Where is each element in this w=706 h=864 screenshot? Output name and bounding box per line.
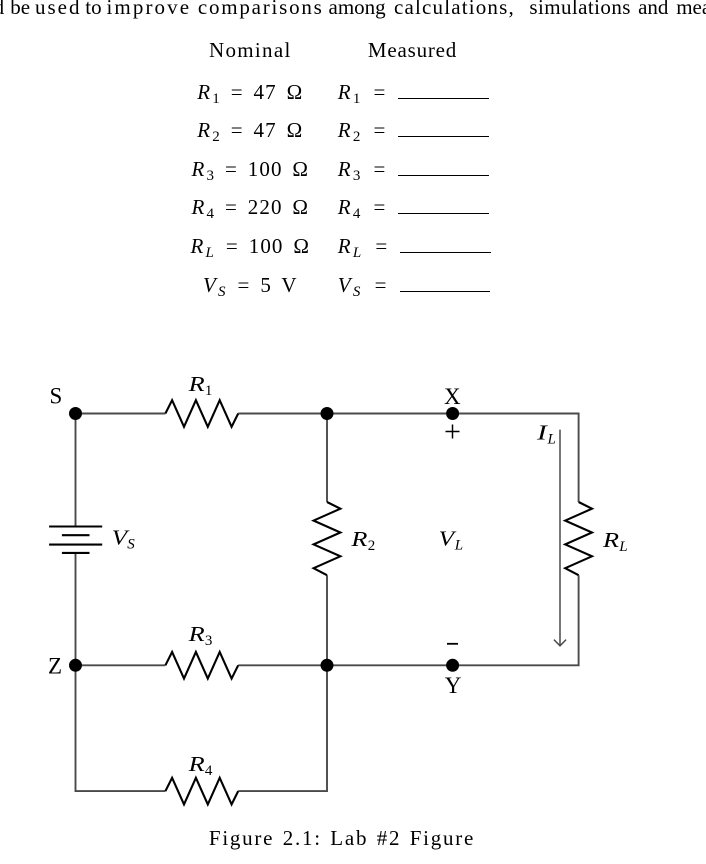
svg-text:X: X xyxy=(444,384,461,409)
measured R4 xyxy=(338,195,489,219)
nominal RL xyxy=(130,234,370,258)
svg-text:4: 4 xyxy=(205,763,213,779)
measured R1 xyxy=(338,80,489,104)
resistor R3 xyxy=(165,652,238,679)
label R1 xyxy=(187,373,212,399)
svg-text:L: L xyxy=(454,538,463,554)
wire right rail lower (RL to bottom-right corner) xyxy=(578,575,580,665)
label VL xyxy=(439,528,464,554)
top body text (clipped line) xyxy=(0,0,4,19)
resistor R1 xyxy=(165,400,238,427)
svg-text:1: 1 xyxy=(205,383,213,399)
svg-text:S: S xyxy=(50,384,63,409)
wire top rail left (S to R1) xyxy=(76,413,166,415)
node top junction xyxy=(321,407,334,420)
wire bottom loop riser and bottom rail right (bottom junction down to R4) xyxy=(238,665,327,791)
label IL xyxy=(536,421,556,448)
nominal R2 xyxy=(130,118,370,142)
nominal R3 xyxy=(130,157,370,181)
wire middle rail left (Z to R3) xyxy=(76,664,166,666)
svg-text:2: 2 xyxy=(368,538,376,554)
svg-text:3: 3 xyxy=(205,633,213,649)
nominal VS xyxy=(130,273,370,297)
table header Nominal xyxy=(130,38,370,62)
figure caption xyxy=(209,826,475,850)
wire R2 branch upper (top junction to R2) xyxy=(326,414,328,503)
wire top rail right and right rail upper (R1 via junction and X to RL) xyxy=(238,414,578,503)
svg-text:Z: Z xyxy=(48,654,62,679)
wire middle rail right (R3 to bottom-right corner via junction and Y) xyxy=(238,664,579,666)
current arrow IL xyxy=(554,430,566,646)
svg-text:L: L xyxy=(618,539,627,555)
measured RL xyxy=(338,234,491,258)
node S xyxy=(69,407,82,420)
label R2 xyxy=(350,528,375,554)
node Z xyxy=(69,659,82,672)
label + (VL polarity) xyxy=(446,425,460,439)
svg-text:R: R xyxy=(350,528,368,551)
measured R3 xyxy=(338,157,489,181)
battery VS xyxy=(49,527,102,553)
label - (VL polarity) xyxy=(447,643,458,645)
svg-text:R: R xyxy=(187,753,205,776)
nominal R4 xyxy=(130,195,370,219)
svg-text:Y: Y xyxy=(445,673,462,698)
node X xyxy=(446,407,459,420)
svg-text:R: R xyxy=(602,529,620,552)
svg-text:R: R xyxy=(187,373,205,396)
resistor R2 xyxy=(314,502,341,575)
svg-text:L: L xyxy=(547,432,556,448)
wire left rail upper (S to battery +) xyxy=(75,414,77,527)
node Y xyxy=(446,659,459,672)
label RL xyxy=(602,529,628,555)
svg-text:R: R xyxy=(187,623,205,646)
label R4 xyxy=(187,753,212,779)
wire R2 branch lower (R2 to bottom junction) xyxy=(326,575,328,665)
measured R2 xyxy=(338,118,489,142)
nominal R1 xyxy=(130,80,370,104)
resistor R4 xyxy=(165,778,238,805)
node bottom junction xyxy=(321,659,334,672)
label R3 xyxy=(187,623,212,649)
svg-text:S: S xyxy=(127,537,135,553)
wire left rail lower and bottom rail left (battery - through Z to R4) xyxy=(76,553,166,791)
table header Measured xyxy=(330,38,495,62)
label VS xyxy=(112,526,136,552)
resistor RL xyxy=(565,502,592,575)
measured VS xyxy=(338,273,490,297)
